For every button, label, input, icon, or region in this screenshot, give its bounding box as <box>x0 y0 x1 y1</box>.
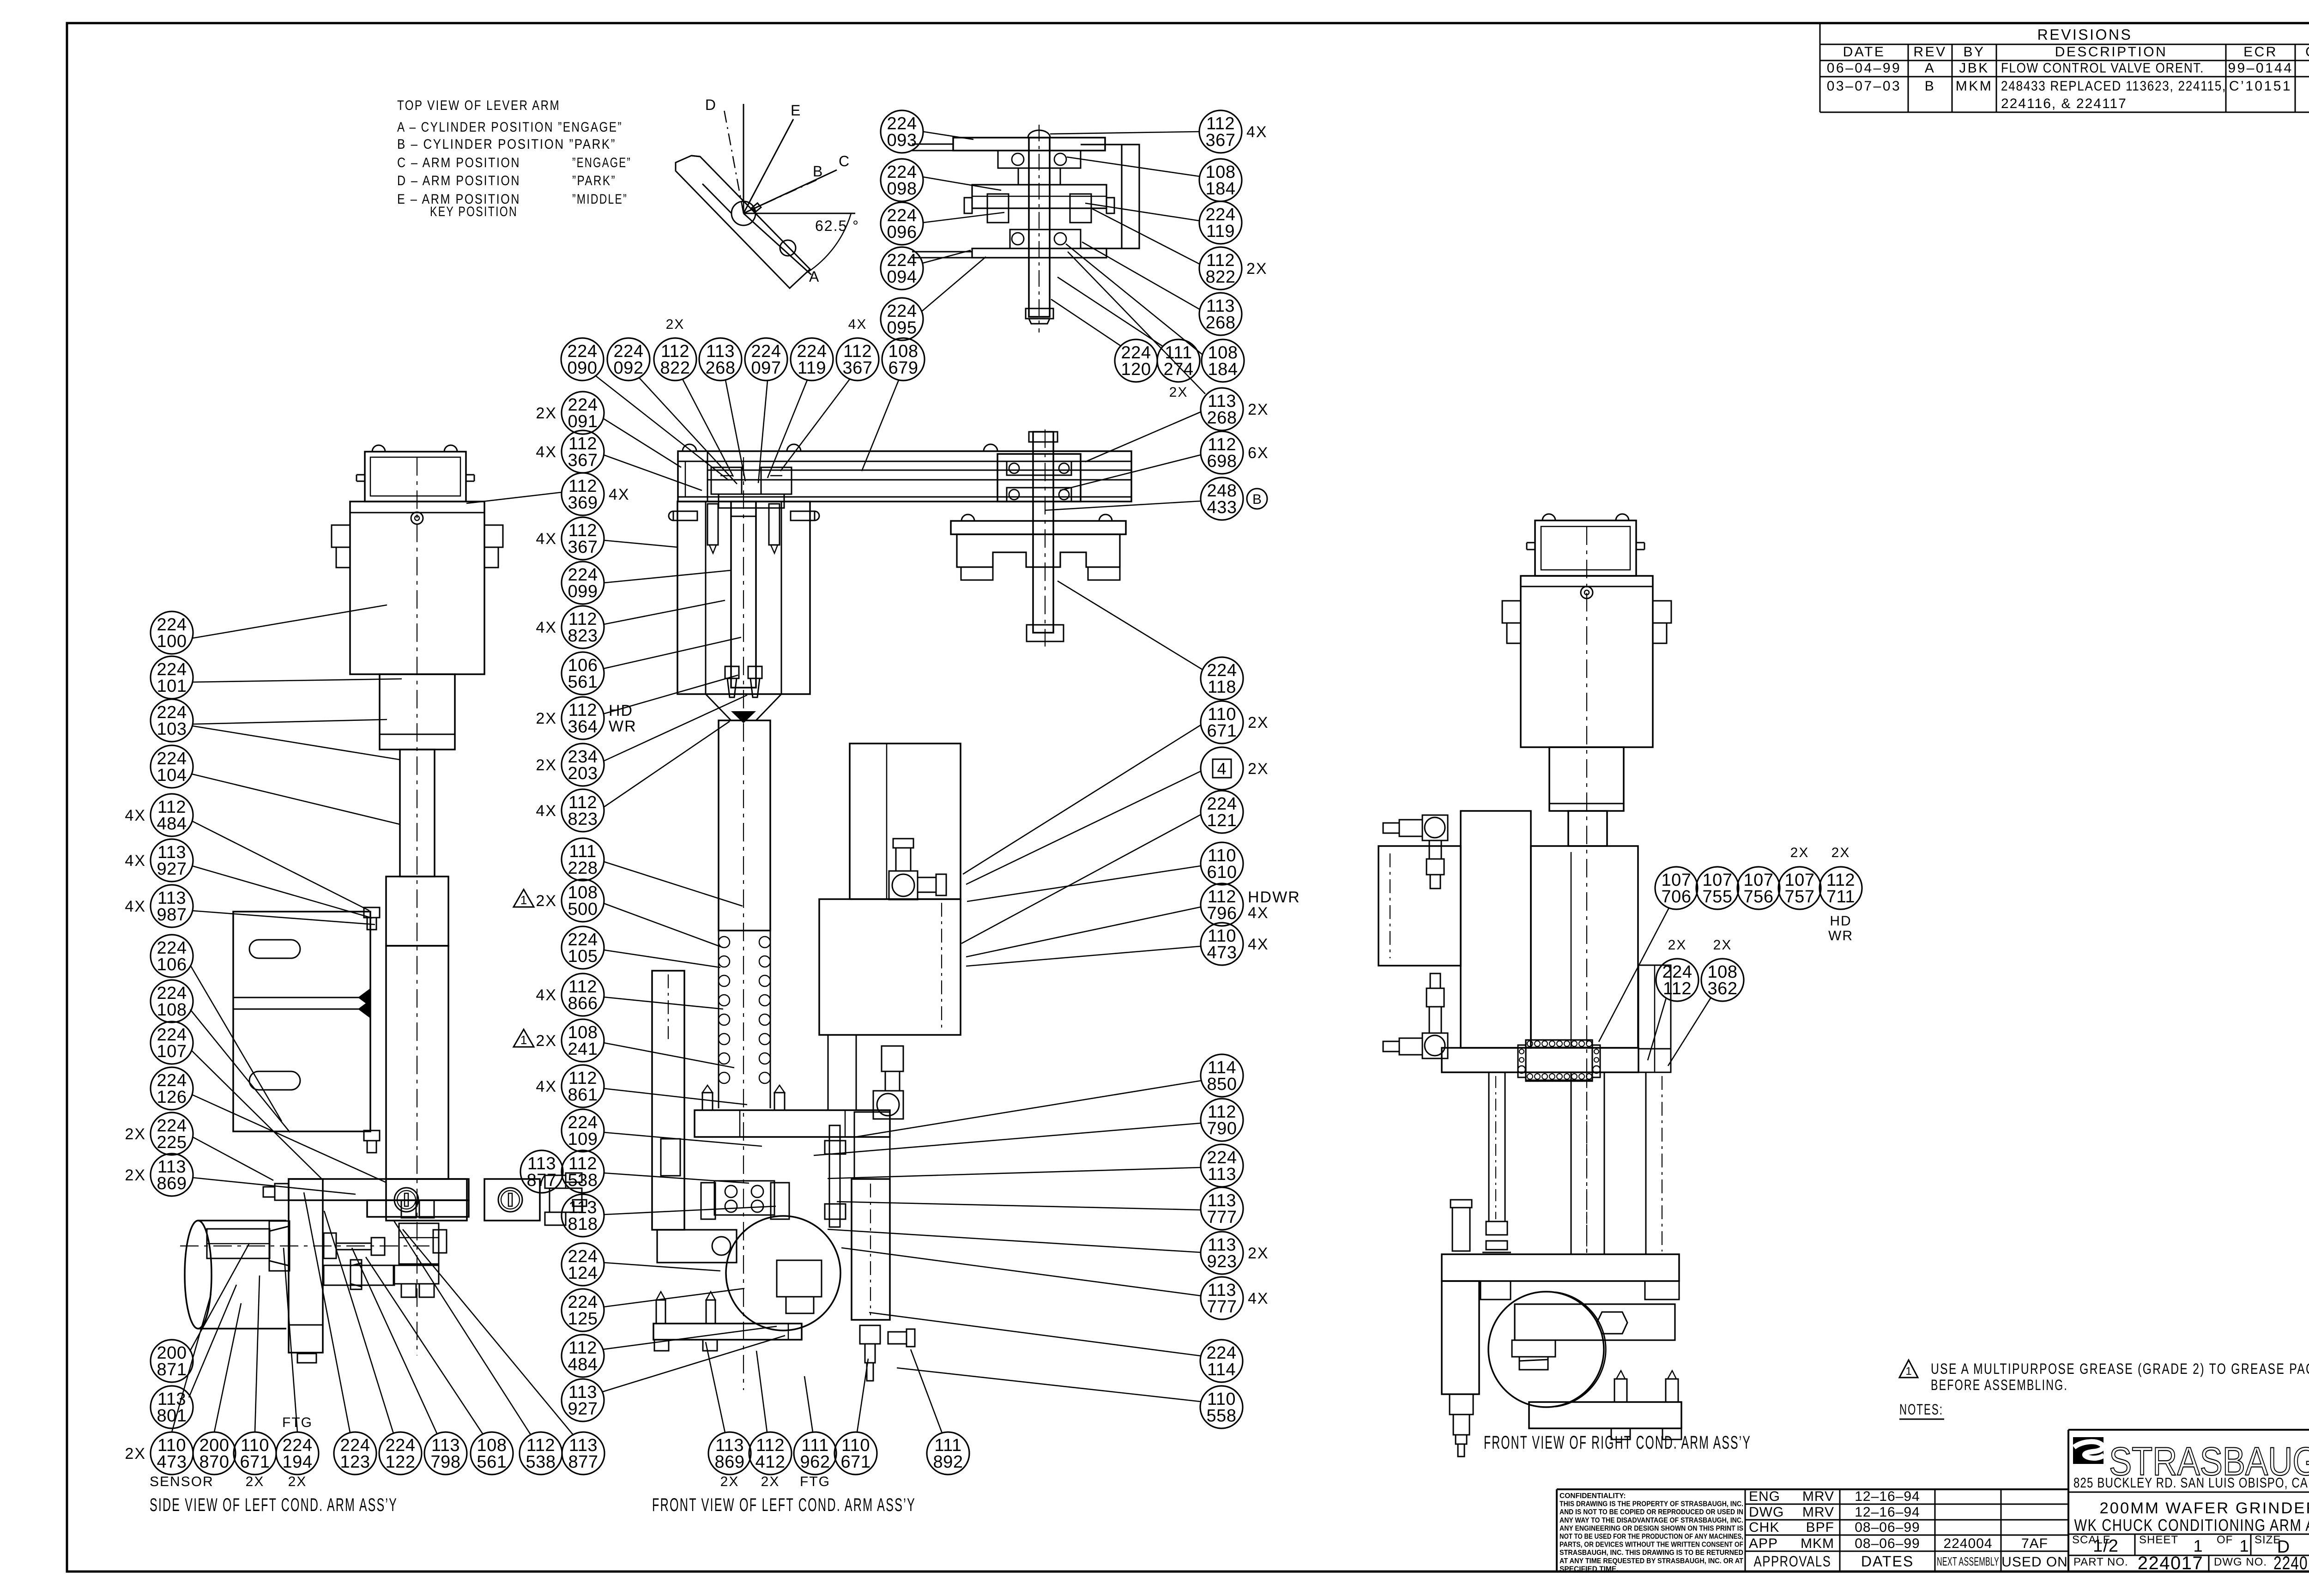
balloon 112-538a <box>562 1150 604 1193</box>
leader 224-104 <box>192 774 400 824</box>
svg-text:367: 367 <box>1206 131 1236 150</box>
svg-text:122: 122 <box>386 1452 416 1472</box>
right view: lower left cylinder <box>1442 1281 1479 1457</box>
balloon 113-801 <box>151 1386 193 1428</box>
svg-text:SIDE VIEW OF LEFT COND. A: SIDE VIEW OF LEFT COND. ARM ASS’Y <box>150 1495 398 1515</box>
balloon 112-823b <box>536 789 604 832</box>
svg-text:NOTES:: NOTES: <box>1899 1401 1943 1418</box>
balloon 224-099 <box>562 562 604 604</box>
balloon 224-112 <box>1656 959 1699 1001</box>
leader 108-184a <box>1067 157 1200 176</box>
leader 113-877b <box>403 1229 574 1435</box>
front view: roller wheel <box>726 1216 840 1330</box>
leader 112-796 <box>966 907 1201 957</box>
balloon 114-850 <box>1201 1054 1243 1097</box>
svg-text:DESCRIPTION: DESCRIPTION <box>2055 44 2168 60</box>
leader 110-671r <box>963 725 1201 874</box>
balloon 111-274 <box>1157 339 1200 382</box>
balloon 108-241 <box>514 1019 604 1062</box>
svg-text:200MM WAFER GRINDER: 200MM WAFER GRINDER <box>2100 1499 2309 1517</box>
leader 113-777b <box>841 1248 1201 1296</box>
detail: top plate <box>953 130 1105 151</box>
detail: small side keys <box>964 198 1114 213</box>
svg-text:558: 558 <box>1207 1406 1237 1426</box>
side view: top cap screws <box>357 445 474 481</box>
svg-text:109: 109 <box>568 1130 598 1149</box>
balloon 110-610 <box>1201 842 1243 885</box>
svg-text:08–06–99: 08–06–99 <box>1855 1520 1920 1535</box>
svg-text:1: 1 <box>520 1033 527 1047</box>
svg-text:923: 923 <box>1207 1252 1237 1271</box>
side view: bracket plate <box>233 912 370 1131</box>
svg-text:101: 101 <box>157 677 187 696</box>
svg-text:268: 268 <box>1207 408 1237 428</box>
front view: valve assembly bottom <box>873 1046 903 1119</box>
balloon 113-927L <box>125 839 193 882</box>
front view: pivot plate <box>657 1230 737 1263</box>
leader 112-866 <box>604 997 723 1009</box>
balloon 224-122 <box>379 1432 422 1475</box>
leader 112-367b <box>604 540 678 547</box>
balloon 224-105 <box>562 926 604 969</box>
svg-text:711: 711 <box>1826 887 1855 907</box>
balloon 112-367d <box>1199 110 1268 153</box>
balloon 112-711 <box>1819 867 1862 909</box>
svg-text:224017: 224017 <box>2138 1553 2203 1573</box>
balloon 224-095 <box>881 298 923 340</box>
svg-text:APP: APP <box>1749 1536 1778 1551</box>
balloon 112-790 <box>1201 1099 1243 1141</box>
leader 224-107 <box>191 1050 323 1180</box>
balloon 224-119d <box>1199 201 1242 244</box>
leader 224-097 <box>758 381 768 483</box>
leader 112-790 <box>814 1123 1201 1155</box>
svg-text:228: 228 <box>568 858 598 878</box>
svg-text:B – CYLINDER POSITION ”PAR: B – CYLINDER POSITION ”PARK” <box>397 137 616 152</box>
svg-text:671: 671 <box>1207 721 1237 741</box>
svg-text:OF: OF <box>2217 1534 2233 1546</box>
svg-text:C’10151: C’10151 <box>2229 79 2292 94</box>
balloon 108-184a <box>1199 159 1242 201</box>
balloon 112-484L <box>125 794 193 836</box>
balloon 112-698 <box>1201 431 1269 474</box>
leader 113-818 <box>604 1206 776 1215</box>
svg-text:4X: 4X <box>848 317 867 332</box>
balloon 110-558 <box>1200 1386 1243 1428</box>
svg-text:124: 124 <box>568 1263 598 1283</box>
side view: left vertical plate <box>289 1179 323 1363</box>
svg-text:FRONT VIEW OF LEFT COND.: FRONT VIEW OF LEFT COND. ARM ASS’Y <box>652 1495 916 1515</box>
svg-text:MKM: MKM <box>1956 79 1993 94</box>
leader 112-364 <box>603 675 738 714</box>
lever arm sketch <box>676 97 859 288</box>
svg-text:FRONT VIEW OF RIGHT COND.: FRONT VIEW OF RIGHT COND. ARM ASS’Y <box>1484 1433 1751 1453</box>
svg-text:484: 484 <box>568 1355 598 1374</box>
spindle bearing housing <box>997 454 1081 502</box>
svg-text:PARTS, OR DEVICES WITHOUT: PARTS, OR DEVICES WITHOUT THE WRITTEN CO… <box>1559 1541 1743 1549</box>
detail: lower bearing block <box>1010 230 1081 248</box>
svg-text:CONFIDENTIALITY:: CONFIDENTIALITY: <box>1559 1492 1626 1500</box>
balloon 110-671b <box>234 1432 276 1475</box>
front view: bracket above lower cylinder <box>854 1112 890 1179</box>
leader 224-225 <box>193 1137 273 1180</box>
svg-text:119: 119 <box>798 358 826 378</box>
svg-text:412: 412 <box>756 1452 786 1472</box>
balloon 224-096 <box>881 202 923 245</box>
detail: upper bearing block <box>998 151 1081 168</box>
svg-text:538: 538 <box>526 1452 556 1472</box>
right view: studs below shelf <box>1482 1072 1511 1252</box>
svg-text:FTG: FTG <box>800 1474 830 1489</box>
svg-text:SPECIFIED TIME.: SPECIFIED TIME. <box>1559 1565 1618 1573</box>
svg-text:WR: WR <box>609 718 637 735</box>
balloon 224-098 <box>881 159 923 201</box>
leader 224-113 <box>828 1167 1201 1179</box>
front view: side pins on cylinder <box>669 511 819 520</box>
leader 108-362 <box>1668 997 1711 1066</box>
leader 224-101 <box>193 679 402 682</box>
svg-text:2X: 2X <box>1169 385 1188 400</box>
right view: left panel <box>1461 811 1531 1048</box>
balloon 107-757 <box>1778 867 1821 909</box>
chuck body <box>957 534 1120 567</box>
leader 234-203 <box>604 695 747 761</box>
svg-text:090: 090 <box>568 358 598 378</box>
front view: base plate bolts <box>654 1292 717 1351</box>
front view: left slim panel <box>652 971 684 1230</box>
svg-text:AT ANY TIME REQUESTED BY: AT ANY TIME REQUESTED BY STRASBAUGH, INC… <box>1559 1557 1743 1565</box>
svg-text:2X: 2X <box>536 892 557 910</box>
svg-text:4X: 4X <box>536 986 557 1004</box>
svg-text:113: 113 <box>1208 1165 1236 1184</box>
detail: left stub lines <box>912 144 972 258</box>
svg-text:FLOW CONTROL VALVE ORENT.: FLOW CONTROL VALVE ORENT. <box>2001 60 2204 76</box>
right view: bottom plate <box>1529 1402 1681 1428</box>
confidentiality box <box>1557 1489 2068 1573</box>
leader 224-125 <box>604 1288 744 1307</box>
balloon 224-104 <box>151 745 193 788</box>
svg-text:4: 4 <box>1217 759 1227 778</box>
leader 113-798 <box>352 1248 437 1434</box>
front view: cylinder bolts <box>707 504 780 553</box>
svg-text:D: D <box>705 97 717 113</box>
svg-text:12–16–94: 12–16–94 <box>1855 1505 1920 1520</box>
leader 110-671b <box>255 1276 260 1432</box>
svg-text:962: 962 <box>800 1452 830 1472</box>
svg-text:C: C <box>839 153 850 169</box>
svg-text:2X: 2X <box>1790 845 1809 860</box>
right view: roller <box>1488 1292 1606 1407</box>
svg-text:03–07–03: 03–07–03 <box>1827 79 1901 94</box>
svg-text:CHK: CHK <box>2305 44 2309 60</box>
svg-text:ANY ENGINEERING OR DESIGN: ANY ENGINEERING OR DESIGN SHOWN ON THIS … <box>1559 1524 1743 1532</box>
svg-text:99–0144: 99–0144 <box>2228 60 2293 76</box>
svg-text:869: 869 <box>157 1174 187 1193</box>
svg-text:561: 561 <box>477 1452 507 1472</box>
svg-text:367: 367 <box>568 538 598 557</box>
leader 224-122 <box>324 1211 393 1433</box>
leader 112-369 <box>466 492 562 503</box>
leader 224-194 <box>284 1248 297 1432</box>
right view: base plate <box>1442 1254 1679 1281</box>
balloon 113-268r <box>1201 388 1269 430</box>
front view: arm inner channel <box>707 470 1131 480</box>
legend: top view of lever arm <box>397 98 631 219</box>
svg-text:364: 364 <box>568 717 598 737</box>
svg-text:096: 096 <box>887 223 917 242</box>
balloon 112-367a <box>536 430 604 473</box>
svg-text:823: 823 <box>568 810 598 829</box>
svg-text:2X: 2X <box>1831 845 1850 860</box>
leader 112-698 <box>1060 455 1201 490</box>
svg-text:105: 105 <box>568 947 598 966</box>
svg-text:610: 610 <box>1207 863 1237 882</box>
front view: block upper-right panel <box>850 744 961 899</box>
balloon 110-473r <box>1201 923 1269 965</box>
side view: right bolt stack <box>393 1223 447 1297</box>
svg-text:2X: 2X <box>1248 401 1269 418</box>
svg-text:126: 126 <box>157 1088 187 1107</box>
leader 112-823a <box>604 600 725 624</box>
balloon 224-094 <box>881 247 923 290</box>
svg-text:4X: 4X <box>536 619 557 636</box>
svg-text:225: 225 <box>157 1133 187 1152</box>
leader 224-092 <box>639 378 737 484</box>
svg-text:2X: 2X <box>761 1474 780 1489</box>
revisions table <box>1820 24 2309 112</box>
svg-text:367: 367 <box>568 451 598 470</box>
NOTES heading <box>1899 1401 1944 1419</box>
leader 106-561 <box>603 637 741 669</box>
svg-text:MRV: MRV <box>1802 1489 1834 1504</box>
svg-text:2X: 2X <box>125 1125 146 1143</box>
svg-text:119: 119 <box>1206 222 1235 241</box>
leader 224-096 <box>923 212 1004 223</box>
balloon 112-866 <box>536 973 604 1016</box>
front view: cylinder body <box>677 502 810 694</box>
svg-text:248433 REPLACED 113623, 224115: 248433 REPLACED 113623, 224115, <box>2001 79 2226 94</box>
svg-text:”ENGAGE”: ”ENGAGE” <box>572 155 631 170</box>
svg-text:BPF: BPF <box>1806 1520 1834 1535</box>
right view: shelf plate <box>1442 1048 1671 1072</box>
leader 108-241 <box>604 1043 734 1068</box>
svg-text:ANY WAY TO THE DISADVANTAG: ANY WAY TO THE DISADVANTAGE OF STRASBAUG… <box>1559 1517 1743 1524</box>
svg-text:4X: 4X <box>1248 904 1269 922</box>
svg-text:MRV: MRV <box>1802 1505 1834 1520</box>
leader 248-433 <box>1045 501 1201 510</box>
spindle centerline <box>1045 429 1046 647</box>
balloon 106-561 <box>562 652 604 695</box>
right view: under-base hexes <box>1481 1281 1679 1300</box>
balloon 4-box <box>1201 747 1269 790</box>
front view: bolts at mid plate <box>701 1085 789 1219</box>
leader 113-777a <box>837 1202 1201 1210</box>
leader 224-123 <box>304 1192 350 1433</box>
svg-text:098: 098 <box>887 179 917 199</box>
balloon 224-106 <box>151 935 193 977</box>
note 1 with warning triangle <box>1899 1360 2309 1393</box>
svg-text:DWG: DWG <box>1749 1505 1784 1520</box>
balloon 224-126 <box>151 1067 193 1110</box>
svg-text:HDWR: HDWR <box>1248 889 1300 906</box>
svg-text:2X: 2X <box>536 1032 557 1050</box>
leader 107-706 <box>1599 908 1669 1042</box>
right view: top cap screws <box>1527 514 1644 550</box>
svg-text:STRASBAUGH, INC. THIS DRA: STRASBAUGH, INC. THIS DRAWING IS TO BE R… <box>1559 1549 1743 1557</box>
svg-text:4X: 4X <box>125 807 146 824</box>
title block <box>2068 1430 2309 1572</box>
leader 224-121 <box>961 815 1201 943</box>
svg-text:106: 106 <box>157 955 187 974</box>
front view: arm left block <box>678 451 707 502</box>
svg-text:095: 095 <box>887 318 917 338</box>
svg-text:D – ARM POSITION: D – ARM POSITION <box>397 173 520 188</box>
detail: housing right <box>1081 145 1139 248</box>
balloon 113-777a <box>1201 1187 1243 1230</box>
svg-text:2X: 2X <box>246 1474 265 1489</box>
right view: centerline <box>1586 526 1587 1256</box>
svg-text:092: 092 <box>614 358 644 378</box>
balloon 111-228 <box>562 838 604 881</box>
balloon 112-367b <box>536 517 604 560</box>
svg-text:107: 107 <box>157 1042 187 1061</box>
balloon 224-090 <box>561 338 604 381</box>
svg-text:ECR: ECR <box>2243 44 2278 60</box>
leader 4-box <box>966 771 1201 884</box>
svg-text:091: 091 <box>568 412 598 431</box>
svg-text:823: 823 <box>568 626 598 646</box>
balloon 110-671r <box>1201 701 1269 744</box>
svg-text:NOT TO BE USED FOR THE P: NOT TO BE USED FOR THE PRODUCTION OF ANY… <box>1559 1533 1743 1541</box>
leader 112-484c <box>603 1326 777 1349</box>
leader 110-671c <box>857 1359 868 1432</box>
svg-text:4X: 4X <box>1248 1290 1269 1307</box>
svg-text:06–04–99: 06–04–99 <box>1827 60 1901 76</box>
leader 224-119d <box>1085 203 1199 221</box>
svg-text:2X: 2X <box>1246 260 1268 278</box>
side view: rod <box>400 750 435 877</box>
svg-text:4X: 4X <box>1248 936 1269 953</box>
front view: bearing blocks lower <box>714 1181 774 1215</box>
svg-text:112: 112 <box>1663 979 1692 998</box>
svg-text:561: 561 <box>568 672 598 692</box>
balloon 107-706 <box>1655 867 1698 909</box>
svg-text:706: 706 <box>1662 887 1692 907</box>
svg-text:2X: 2X <box>720 1474 739 1489</box>
svg-text:CHK: CHK <box>1749 1520 1779 1535</box>
balloon 112-367t <box>836 338 879 381</box>
svg-text:4X: 4X <box>125 898 146 915</box>
leader 224-118 <box>1058 581 1203 670</box>
svg-text:2X: 2X <box>536 405 557 422</box>
leader 108-500 <box>604 903 723 948</box>
svg-text:698: 698 <box>1207 452 1237 471</box>
approvals table <box>1745 1489 2068 1572</box>
svg-text:103: 103 <box>157 719 187 739</box>
front view: arm top plate <box>678 451 1131 502</box>
balloon 112-822d <box>1199 247 1268 290</box>
leader 108-184b <box>1066 244 1203 355</box>
balloon 112-484c <box>562 1335 604 1377</box>
leader 114-850 <box>855 1081 1201 1137</box>
svg-text:7AF: 7AF <box>2021 1536 2048 1551</box>
leader 112-822d <box>1092 209 1200 264</box>
front view: arm screw bumps <box>683 444 997 451</box>
right view: left regulator cylinder <box>1451 1200 1472 1251</box>
svg-text:796: 796 <box>1207 904 1237 923</box>
leader 224-099 <box>604 570 731 583</box>
svg-text:224017A1: 224017A1 <box>2273 1553 2309 1573</box>
side view: under-plate nuts <box>401 1200 434 1218</box>
balloon 224-093 <box>881 110 923 153</box>
svg-text:121: 121 <box>1207 811 1237 830</box>
svg-text:12–16–94: 12–16–94 <box>1855 1489 1920 1504</box>
svg-text:62.5 °: 62.5 ° <box>815 218 859 234</box>
svg-text:484: 484 <box>157 814 187 834</box>
svg-text:822: 822 <box>660 358 690 378</box>
front view: hose barbs at tube bottom <box>725 666 762 697</box>
balloon 224-097 <box>745 338 787 381</box>
leader 113-801 <box>189 1285 236 1397</box>
detail: mid flange <box>972 185 1106 223</box>
svg-text:4X: 4X <box>125 852 146 870</box>
balloon 112-861 <box>536 1065 604 1107</box>
svg-text:877: 877 <box>568 1452 598 1472</box>
side view: small actuator mid <box>324 1233 385 1258</box>
balloon 112-364 <box>536 697 636 739</box>
balloon 110-671c <box>834 1432 877 1475</box>
side view: arm plate horizontal <box>289 1179 469 1217</box>
svg-text:818: 818 <box>568 1215 598 1234</box>
leader 112-367d <box>1050 132 1199 134</box>
balloon 234-203 <box>536 744 604 786</box>
svg-text:2X: 2X <box>1668 937 1687 953</box>
balloon 113-877a <box>520 1150 563 1193</box>
leader 112-538a <box>604 1173 749 1183</box>
svg-text:BY: BY <box>1963 44 1985 60</box>
side view: sensor rod <box>207 1229 270 1258</box>
svg-text:E: E <box>791 102 801 119</box>
balloon 108-362 <box>1701 959 1744 1001</box>
svg-text:TOP VIEW OF LEVER ARM: TOP VIEW OF LEVER ARM <box>397 98 560 113</box>
right view: valve cluster top <box>1383 815 1448 889</box>
leader 224-095 <box>921 257 986 312</box>
balloon 113-869L <box>125 1154 193 1196</box>
balloon 112-822t <box>654 338 696 381</box>
balloon 113-869c <box>708 1432 751 1475</box>
balloon 248-433 <box>1201 478 1267 520</box>
balloon 112-823a <box>536 606 604 648</box>
svg-text:094: 094 <box>887 267 917 287</box>
svg-text:123: 123 <box>340 1452 370 1472</box>
balloon 108-184b <box>1202 339 1244 382</box>
leader 110-610 <box>967 866 1201 901</box>
part no row <box>2073 1553 2309 1573</box>
leader 111-962 <box>804 1376 813 1432</box>
svg-text:871: 871 <box>157 1360 187 1379</box>
balloon 108-561b <box>471 1432 513 1475</box>
front view: bottom valve fitting <box>860 1325 915 1381</box>
svg-text:224004: 224004 <box>1943 1536 1992 1551</box>
svg-text:224116, & 224117: 224116, & 224117 <box>2001 96 2127 111</box>
leader 113-927L <box>192 866 372 918</box>
chuck top plate <box>951 521 1126 534</box>
front view: base plate <box>653 1324 802 1340</box>
balloon 107-756 <box>1737 867 1780 909</box>
leader 224-126 <box>192 1094 386 1182</box>
leader 224-103a <box>193 719 387 724</box>
svg-text:203: 203 <box>568 764 598 783</box>
